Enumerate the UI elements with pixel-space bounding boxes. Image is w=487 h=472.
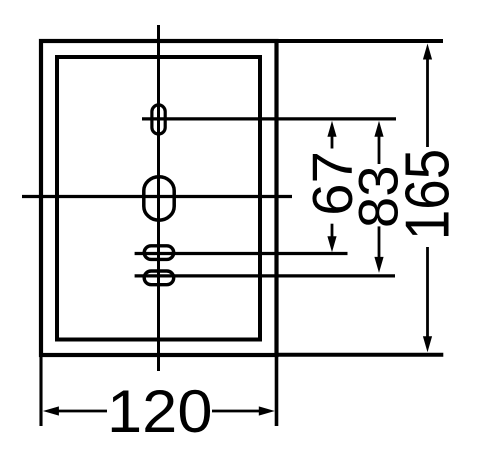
- dimension 67 line (upper arrow): [327, 121, 336, 149]
- extension line B from slot S3: [135, 252, 348, 255]
- dimension 83 line (lower arrow): [374, 226, 383, 273]
- bottom extension line (rect bottom edge extended right): [275, 353, 444, 357]
- slot hole S2 (large obround, middle): [144, 177, 174, 221]
- svg-text:120: 120: [107, 378, 212, 445]
- slot S4 (horizontal slot): [144, 271, 174, 285]
- slot S1 (small vertical slot, top): [152, 105, 165, 134]
- dimension 120 line (right arrow): [212, 406, 275, 415]
- svg-text:165: 165: [393, 149, 462, 240]
- extension line C from slot S4: [135, 274, 395, 277]
- dimension 165 line (lower arrow): [423, 247, 432, 352]
- vertical centerline: [157, 25, 160, 371]
- slot S3 (horizontal slot): [144, 246, 174, 260]
- top extension line (rect top edge extended right): [275, 39, 443, 43]
- dimension 165 line (upper arrow): [423, 44, 432, 148]
- right extension line for 120: [275, 356, 279, 426]
- outer plate rectangle: [41, 41, 277, 355]
- left extension line for 120: [39, 356, 42, 426]
- dimension 120 line (left arrow): [43, 406, 107, 415]
- extension line A from slot S1: [142, 117, 396, 120]
- inner plate rectangle: [57, 57, 260, 340]
- dimension 67 line (lower arrow): [327, 224, 336, 253]
- dimension 83 line (upper arrow): [374, 121, 383, 164]
- horizontal centerline: [22, 195, 292, 198]
